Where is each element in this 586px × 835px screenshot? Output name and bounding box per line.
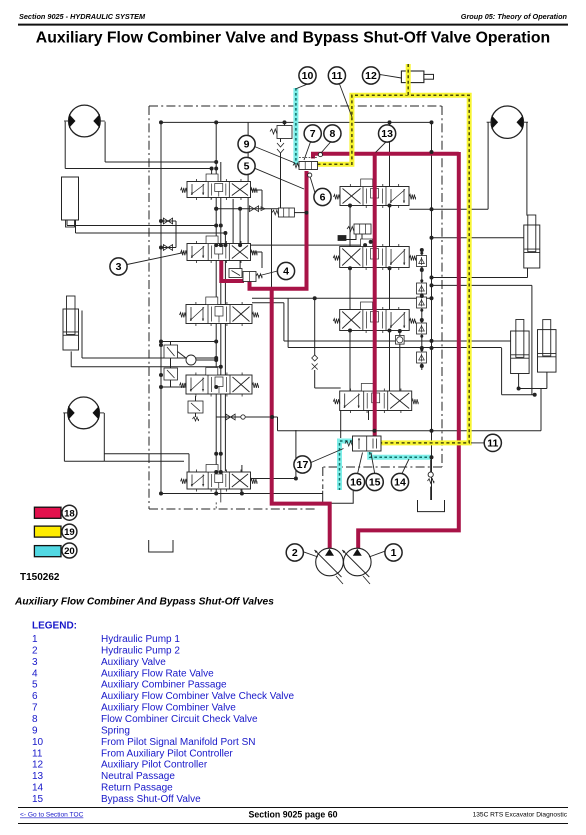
wire: motor1 circuit: [64, 122, 66, 169]
footer rule top: [18, 807, 568, 809]
svg-text:4: 4: [283, 266, 289, 278]
svg-text:2: 2: [292, 547, 298, 559]
svg-text:5: 5: [244, 161, 250, 173]
svg-text:7: 7: [32, 703, 38, 714]
pilot valve mid (small box): [278, 208, 294, 217]
cylinder right pair A: [511, 320, 529, 374]
manifold dash-dot border: [149, 105, 442, 107]
svg-text:15: 15: [32, 794, 44, 805]
svg-text:Auxiliary Pilot Controller: Auxiliary Pilot Controller: [101, 760, 208, 771]
svg-text:13: 13: [381, 128, 393, 140]
cylinder left: [63, 296, 79, 350]
svg-text:Auxiliary Flow Combiner Valve: Auxiliary Flow Combiner Valve and Bypass…: [36, 30, 550, 47]
cylinder right pair B: [538, 320, 557, 373]
callout 14: [391, 473, 408, 490]
callout 11: [484, 434, 501, 451]
orifice in square right: [396, 336, 405, 345]
relief valve cluster left: [164, 345, 178, 358]
footer rule bottom: [18, 823, 568, 825]
wire: right cylinder pair lines: [284, 340, 511, 342]
svg-text:6: 6: [320, 192, 326, 204]
svg-text:15: 15: [369, 477, 381, 489]
crimson combiner top passage: [311, 154, 315, 159]
valve RC: [333, 302, 416, 333]
cyan pilot line from port SN: [293, 88, 298, 165]
check valve 8: [318, 153, 322, 157]
svg-text:Neutral Passage: Neutral Passage: [101, 771, 175, 782]
svg-text:13: 13: [32, 771, 44, 782]
svg-text:1: 1: [391, 547, 397, 559]
callout 9: [238, 135, 255, 152]
pump drain lines: [336, 576, 343, 584]
crimson passage from aux valve (3) through flow-rate valve (4): [221, 261, 244, 282]
svg-text:12: 12: [365, 70, 377, 82]
svg-text:Flow Combiner Circuit Check Va: Flow Combiner Circuit Check Valve: [101, 714, 258, 725]
wire: return to tank3: [430, 457, 432, 472]
wire: left cylinder lines: [81, 311, 83, 359]
orifice circle component: [161, 341, 216, 343]
hydraulic pump 2: [315, 548, 344, 577]
callout 1: [385, 544, 402, 561]
svg-text:135C RTS Excavator Diagnostic: 135C RTS Excavator Diagnostic: [473, 812, 568, 819]
svg-text:16: 16: [350, 477, 362, 489]
svg-text:1: 1: [32, 634, 38, 645]
cyan bypass valve bottom line: [370, 452, 431, 457]
callout 17: [294, 456, 311, 473]
svg-text:Auxiliary Flow Rate Valve: Auxiliary Flow Rate Valve: [101, 668, 214, 679]
accumulator left: [62, 177, 79, 220]
svg-text:7: 7: [310, 128, 316, 140]
svg-text:11: 11: [32, 748, 43, 759]
relief valve right column: [354, 224, 371, 234]
valve L1 (travel): [181, 174, 258, 200]
bowtie mid: [249, 206, 258, 212]
callout 19: [62, 524, 77, 539]
flow rate valve 4: [229, 269, 242, 278]
bowtie lower mid: [216, 416, 246, 418]
check valve with spring above tank3: [428, 472, 433, 477]
tank left: [149, 540, 173, 552]
svg-text:Group 05: Theory of Operation: Group 05: Theory of Operation: [461, 12, 568, 21]
callout 4: [277, 262, 294, 279]
svg-text:Spring: Spring: [101, 725, 130, 736]
svg-text:T150262: T150262: [20, 572, 60, 583]
svg-text:17: 17: [297, 459, 309, 471]
svg-text:19: 19: [64, 527, 75, 538]
callout 13: [379, 125, 396, 142]
pilot controller 12: [401, 71, 424, 83]
wire: valve5 to bypass valve: [251, 478, 296, 480]
svg-text:Hydraulic Pump 2: Hydraulic Pump 2: [101, 645, 180, 656]
hydraulic motor top-left: [64, 105, 105, 137]
callout 15: [366, 473, 383, 490]
svg-text:Hydraulic Pump 1: Hydraulic Pump 1: [101, 634, 180, 645]
legend swatch cyan 20: [34, 546, 61, 557]
svg-text:Return Passage: Return Passage: [101, 783, 173, 794]
svg-text:Auxiliary Flow Combiner And By: Auxiliary Flow Combiner And Bypass Shut-…: [14, 597, 274, 608]
svg-text:11: 11: [487, 438, 498, 450]
svg-text:Bypass Shut-Off Valve: Bypass Shut-Off Valve: [101, 794, 201, 805]
reducing valve below L4: [188, 401, 203, 413]
hydraulic motor mid-left: [63, 397, 104, 429]
callout 20: [62, 543, 77, 558]
wire: motor2 circuit: [63, 413, 65, 461]
pilot dashed lines: [215, 502, 217, 509]
svg-text:14: 14: [394, 477, 406, 489]
svg-text:From Pilot Signal Manifold Por: From Pilot Signal Manifold Port SN: [101, 737, 256, 748]
junction dots: [214, 120, 218, 124]
wire: right column connectors: [389, 122, 391, 186]
legend swatch red 18: [34, 507, 61, 518]
svg-text:10: 10: [32, 737, 44, 748]
crimson right loop to pump1: [358, 152, 459, 549]
cylinder right upper: [524, 215, 540, 268]
port relief checks column: [417, 256, 427, 267]
svg-text:9: 9: [32, 725, 38, 736]
crimson neutral passage 13: [373, 154, 377, 437]
svg-text:Auxiliary Flow Combiner Valve: Auxiliary Flow Combiner Valve Check Valv…: [101, 691, 294, 702]
svg-text:Section 9025 - HYDRAULIC SYSTE: Section 9025 - HYDRAULIC SYSTEM: [19, 12, 146, 21]
callout 8: [324, 125, 341, 142]
svg-text:Auxiliary Combiner Passage: Auxiliary Combiner Passage: [101, 680, 227, 691]
callout 2: [286, 544, 303, 561]
svg-text:11: 11: [331, 70, 342, 82]
valve RB: [333, 239, 416, 270]
callout 3: [110, 258, 127, 275]
wire: mid cross lines: [216, 208, 278, 210]
valve RA: [334, 179, 416, 208]
svg-text:3: 3: [32, 657, 38, 668]
svg-text:3: 3: [116, 261, 122, 273]
svg-text:6: 6: [32, 691, 38, 702]
svg-text:12: 12: [32, 760, 44, 771]
svg-text:LEGEND:: LEGEND:: [32, 621, 77, 632]
header rule: [18, 24, 568, 26]
callout 7: [304, 125, 321, 142]
svg-text:From Auxiliary Pilot Controlle: From Auxiliary Pilot Controller: [101, 748, 233, 759]
svg-text:Auxiliary Flow Combiner Valve: Auxiliary Flow Combiner Valve: [101, 703, 236, 714]
valve L2 (aux valve 3): [181, 236, 258, 263]
svg-text:9: 9: [244, 139, 250, 151]
bypass shut-off valve 15: [353, 436, 382, 451]
svg-text:4: 4: [32, 668, 38, 679]
svg-text:14: 14: [32, 783, 44, 794]
tank center: [323, 491, 354, 504]
callout 10: [299, 67, 316, 84]
crimson down-branch to pump2: [272, 287, 330, 549]
inner circuit border: [161, 121, 432, 123]
callout 11: [328, 67, 345, 84]
check valve 6: [308, 173, 312, 177]
valve L4: [180, 368, 259, 397]
valve L5: [181, 465, 258, 492]
svg-text:20: 20: [64, 546, 75, 557]
callout 12: [362, 67, 379, 84]
wire: accumulator lines: [66, 220, 68, 226]
flow combiner valve 7: [299, 162, 318, 170]
svg-text:5: 5: [32, 680, 38, 691]
leader lines: [369, 551, 385, 557]
svg-text:Auxiliary Valve: Auxiliary Valve: [101, 657, 166, 668]
wire: center rails: [215, 122, 217, 493]
callout 5: [238, 157, 255, 174]
callout 16: [347, 473, 364, 490]
wire: right cylinder1 lines: [432, 237, 524, 239]
svg-text:18: 18: [64, 508, 75, 519]
callout 6: [314, 188, 331, 205]
wire: motor3 circuit: [487, 122, 489, 209]
valve L3: [180, 297, 259, 326]
cyan bypass valve left line: [340, 441, 353, 490]
yellow stub through controller: [406, 64, 411, 95]
wire: bowtie line to bypass area: [246, 416, 278, 418]
pilot relief top: [277, 126, 292, 139]
svg-text:<- Go to Section TOC: <- Go to Section TOC: [20, 812, 84, 819]
yellow pilot path from controller 12: [318, 95, 470, 443]
hydraulic motor top-right: [487, 106, 528, 138]
svg-text:8: 8: [32, 714, 38, 725]
tank right: [418, 500, 445, 512]
svg-text:8: 8: [329, 128, 335, 140]
callout 18: [62, 505, 77, 520]
svg-text:Section 9025 page 60: Section 9025 page 60: [249, 810, 338, 820]
svg-text:2: 2: [32, 645, 38, 656]
bowtie shutoff left 1: [161, 220, 176, 222]
wire: crossover L3 to right bank: [252, 297, 432, 299]
legend swatch yellow 19: [34, 526, 61, 537]
svg-text:10: 10: [302, 70, 314, 82]
valve RD: [333, 384, 418, 414]
hydraulic pump 1: [342, 548, 371, 577]
